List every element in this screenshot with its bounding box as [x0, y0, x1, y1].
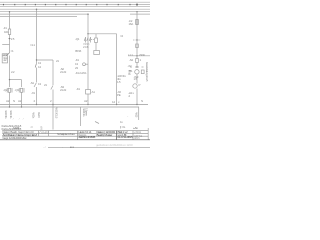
- power rail L3 right segment: [130, 13, 150, 15]
- wire pole2 to rail: [21, 93, 23, 108]
- right top small text: [120, 35, 123, 38]
- arrow mark: [95, 122, 99, 124]
- right column x137 from top: [136, 12, 138, 20]
- actuator circle: [83, 63, 86, 66]
- junction (36.5,60): [36, 59, 37, 60]
- wire: L3 turn down at x88: [87, 14, 89, 37]
- breaker Q1 pole 2: [87, 37, 89, 43]
- side box right of motor: [141, 70, 144, 74]
- pole labels: [3, 89, 7, 92]
- right column labels: [129, 20, 133, 23]
- pole symbol 2: right bracket: [23, 88, 25, 93]
- cable below rail x53: [52, 105, 54, 130]
- breaker Q1 pole 3: [90, 37, 92, 43]
- contact S2 lever: [51, 86, 53, 90]
- wire below S1 to rail: [36, 87, 38, 105]
- left marks of motor: [129, 70, 131, 72]
- breaker Q1 levers: [84, 38, 85, 42]
- contact S1a lower wire: [36, 68, 38, 83]
- contact labels on x36.5: [30, 82, 34, 85]
- bottom rail N: [0, 104, 148, 106]
- label 2.5 wire: [11, 38, 14, 41]
- ticks above rail: [6, 100, 9, 103]
- breaker Q1 pole 1: [85, 37, 87, 43]
- power rail L3: [0, 13, 88, 15]
- junction dots: [9, 8, 138, 107]
- stub to left border at y44.5: [2, 44, 9, 46]
- wire below: [136, 25, 138, 56]
- branch at y33.5 to right: [88, 33, 117, 35]
- dashed linkage: [91, 39, 95, 41]
- pole symbol 1: left bracket: [6, 88, 8, 93]
- neutral rail N: [0, 16, 77, 18]
- lower circle: [133, 84, 137, 88]
- tick at junction y38.6: [9, 38, 11, 40]
- wire: F1 drop from L2: [9, 12, 11, 29]
- actuator link: [85, 63, 88, 65]
- wire: column x53 down: [52, 60, 54, 85]
- long wire right down to rail: [116, 34, 118, 105]
- right border segment at title block: [147, 128, 149, 140]
- branch to second pole: [10, 79, 22, 81]
- gray fuse box right: [136, 20, 139, 25]
- junction (9.5,79.6): [9, 79, 10, 80]
- enclosure box left: [2, 54, 7, 63]
- wire: drop from L1 at x36.5: [36, 9, 38, 60]
- junction (88,14.1): [87, 13, 89, 15]
- footer line: [48, 147, 150, 149]
- wire S2 to rail: [52, 90, 54, 105]
- label x36 cross ref: [30, 44, 35, 47]
- wire below F1: [9, 35, 11, 54]
- vertical cable texts below rail: [3, 110, 6, 118]
- top ruler line: [0, 4, 150, 6]
- bottom rail PE: [0, 106, 139, 108]
- junction (137,55.8): [136, 55, 137, 56]
- junction (116.6,104.5): [116, 104, 117, 105]
- arrowhead: [7, 53, 9, 55]
- junction (36.5,104.5): [36, 104, 37, 105]
- branch right at y60: [37, 59, 54, 61]
- cable below rail x80.5: [80, 107, 82, 126]
- contact lever at interruption: [6, 53, 10, 57]
- small stub line: [2, 55, 5, 57]
- pole symbol 1 box: [8, 88, 10, 92]
- power rail L1: [0, 8, 150, 10]
- small box (aux device): [94, 51, 100, 55]
- coil K1: [86, 90, 91, 95]
- pole symbol 2: left bracket: [18, 88, 20, 93]
- label at left arrows: [11, 50, 14, 53]
- contact S1a lever: [35, 63, 36, 67]
- title block texts: [3, 131, 34, 134]
- label -F1: [3, 27, 7, 30]
- power rail L2: [0, 11, 150, 13]
- Q1 label: [75, 38, 79, 41]
- breaker mechanism box: [95, 38, 98, 43]
- junction (88,33.8): [87, 33, 88, 34]
- junction (36.5,9.2): [36, 8, 38, 10]
- wire continue down left column: [9, 56, 11, 88]
- junction (53,104.5): [52, 104, 53, 105]
- junction (9.5,38.6): [9, 38, 10, 39]
- terminal row: [130, 66, 132, 68]
- junction (21.5,107): [21, 106, 22, 107]
- control column below Q1: [87, 43, 89, 90]
- footer texts below frame: [120, 121, 123, 124]
- title block table lines: [2, 131, 148, 140]
- contact lever S1: [34, 83, 37, 88]
- junction (9.5,107): [9, 106, 10, 107]
- junction (137,40): [136, 39, 137, 40]
- wire below motor: [136, 74, 138, 84]
- wire mech to small box: [95, 43, 97, 51]
- vertical text right margin: [145, 62, 148, 81]
- arrow line upper: [2, 53, 7, 55]
- fuse F1 body: [8, 29, 10, 35]
- page frame top border: [0, 1, 150, 3]
- label 21 at x53: [56, 60, 59, 63]
- pole symbol 1: right bracket: [11, 88, 13, 93]
- wire: [136, 56, 138, 59]
- junction (137,67): [136, 66, 137, 67]
- pole symbol 2 box: [20, 88, 22, 92]
- motor circle M: [135, 70, 139, 74]
- drop x96 to mechanism: [95, 34, 97, 38]
- wire to rail: [136, 89, 138, 105]
- junction (137,104.5): [136, 104, 137, 105]
- scattered small text above title block: [1, 125, 21, 128]
- K1 labels: [75, 50, 81, 53]
- terminal tick at y40: [133, 39, 141, 41]
- small box on right column: [136, 59, 139, 63]
- junction (137,11.7): [136, 11, 137, 12]
- wire pole1 to rail: [9, 93, 11, 108]
- node label line at y55.8: [128, 55, 150, 57]
- cable below rail right: [138, 107, 140, 120]
- ruler column tick digits: [3, 4, 137, 6]
- coil to rail: [87, 94, 89, 105]
- junction (88,104.5): [87, 104, 88, 105]
- junction (9.5,11.7): [9, 11, 11, 13]
- contact S1a upper stub: [36, 60, 38, 63]
- contact pin labels S1: [38, 62, 41, 65]
- small box at y44: [136, 44, 139, 48]
- inner frame line below ruler: [0, 5, 150, 7]
- bottom frame line of title block: [0, 139, 150, 141]
- second pole drop: [21, 80, 23, 87]
